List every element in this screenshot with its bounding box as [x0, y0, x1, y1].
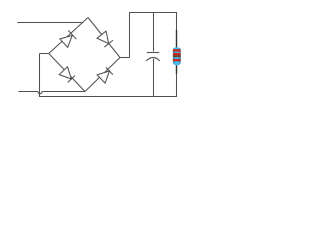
wire DC- bottom rail	[39, 96, 177, 98]
capacitor C1 top plate	[147, 52, 159, 54]
diode D4 lower-right	[97, 67, 113, 83]
wire DC- left drop	[39, 54, 41, 98]
resistor R1 band red 1	[173, 49, 181, 51]
wire AC input bottom (AC2) left segment	[19, 91, 38, 93]
wire bridge upper-left edge	[49, 18, 88, 54]
wire bridge lower-left edge	[49, 54, 85, 92]
wire AC input top (AC1)	[17, 22, 82, 24]
capacitor C1 top lead	[153, 13, 155, 52]
diode D3 lower-left	[59, 67, 75, 83]
wire hop over DC- drop	[38, 92, 42, 94]
wire DC+ riser	[129, 13, 131, 58]
wire bridge upper-right edge	[88, 18, 120, 58]
wire bridge lower-right edge	[85, 58, 120, 92]
resistor R1 top lead stub	[176, 30, 178, 48]
diode D1 upper-left	[60, 30, 76, 47]
diode D2 upper-right	[97, 31, 113, 47]
wire AC2 right segment to bottom vertex	[42, 91, 85, 93]
resistor R1 bottom lead stub	[176, 65, 178, 74]
resistor R1 top lead wire	[176, 13, 178, 32]
wire node R to riser	[120, 57, 130, 59]
capacitor C1 curved plate	[146, 57, 160, 61]
resistor R1 band red 3	[173, 59, 181, 61]
resistor R1 band brown	[173, 55, 181, 57]
wire node L stub	[40, 53, 49, 55]
resistor R1 bottom lead wire	[176, 73, 178, 97]
resistor R1 body (blue with color bands)	[173, 47, 181, 65]
capacitor C1 bottom lead	[153, 59, 155, 97]
resistor R1 band red 2	[173, 53, 181, 55]
wire DC+ top rail	[129, 12, 177, 14]
